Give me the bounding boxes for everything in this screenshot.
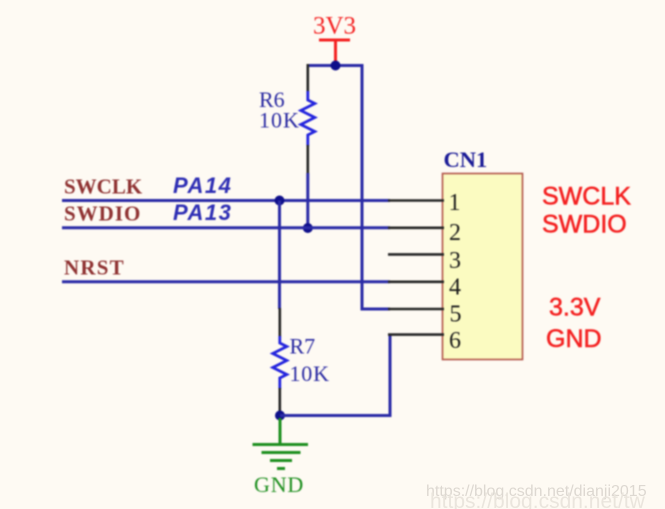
junction dot GND [275, 411, 285, 421]
svg-text:10K: 10K [290, 361, 330, 386]
junction dot R6/SWDIO [303, 223, 313, 233]
svg-text:1: 1 [449, 190, 461, 216]
svg-text:SWDIO: SWDIO [542, 211, 627, 239]
wire: 3V3 horizontal [307, 64, 363, 67]
pin 5 [388, 308, 444, 311]
svg-text:10K: 10K [259, 108, 300, 133]
junction dot SWCLK [275, 196, 285, 206]
svg-text:GND: GND [254, 472, 304, 497]
ground GND [253, 418, 309, 497]
svg-text:3: 3 [449, 248, 461, 274]
svg-text:SWDIO: SWDIO [64, 202, 141, 226]
svg-text:SWCLK: SWCLK [542, 183, 631, 211]
junction dot at 3V3 [331, 61, 341, 71]
svg-text:CN1: CN1 [444, 147, 488, 172]
svg-text:3.3V: 3.3V [549, 294, 601, 322]
wire NRST [62, 280, 390, 283]
wire SWDIO [62, 226, 390, 229]
pin 6 [388, 333, 444, 336]
svg-text:GND: GND [546, 325, 602, 353]
svg-text:https://blog.csdn.net/tw: https://blog.csdn.net/tw [430, 490, 646, 509]
svg-text:5: 5 [450, 302, 462, 328]
pin 4 [388, 280, 444, 283]
wire: SWCLK junction down to R7 [278, 201, 281, 310]
wire: GND net to pin 6 [280, 335, 390, 416]
svg-text:SWCLK: SWCLK [64, 175, 143, 199]
svg-text:6: 6 [449, 328, 461, 354]
wire: R6 bottom to SWDIO [306, 173, 309, 228]
svg-text:NRST: NRST [64, 256, 125, 280]
svg-text:4: 4 [449, 275, 461, 301]
pin 2 [388, 227, 444, 230]
svg-text:PA14: PA14 [173, 173, 232, 198]
resistor R6 [259, 64, 315, 174]
resistor R7 [273, 308, 330, 416]
svg-text:3V3: 3V3 [313, 13, 356, 40]
power symbol 3V3 [313, 13, 356, 65]
connector CN1 body [443, 174, 523, 360]
wire SWCLK [62, 199, 390, 202]
svg-text:R7: R7 [290, 334, 316, 359]
pin 3 [388, 253, 444, 256]
svg-text:PA13: PA13 [173, 200, 232, 225]
wire: 3.3V to pin 5 (right branch) [362, 64, 390, 309]
pin 1 [388, 199, 444, 202]
svg-text:2: 2 [449, 220, 461, 246]
